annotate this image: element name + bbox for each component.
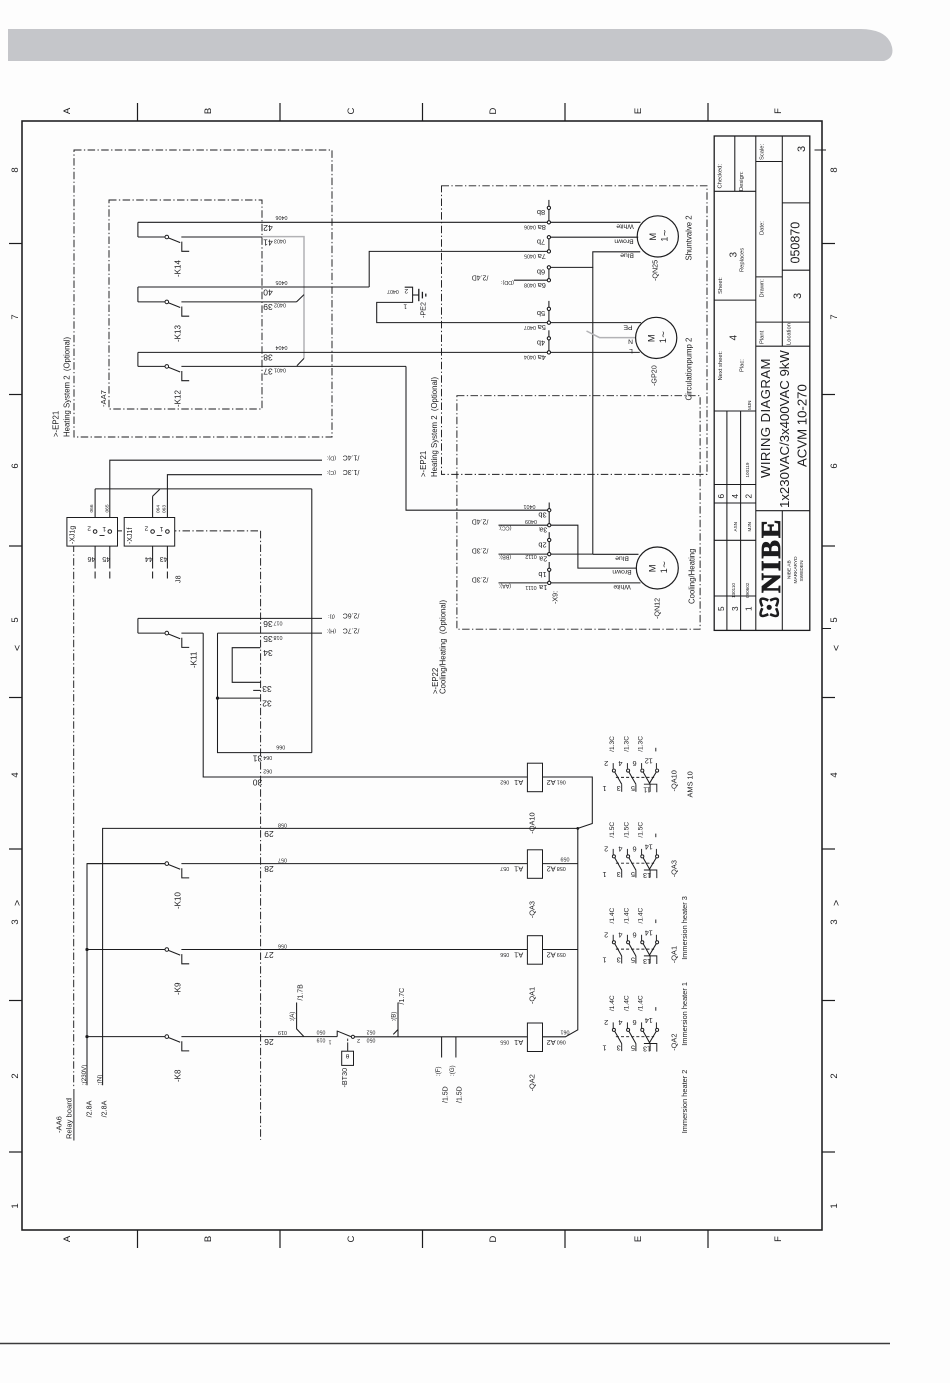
svg-text:0407: 0407 [524, 324, 536, 330]
relay contact -K10 [87, 863, 165, 865]
tick 33 [253, 689, 260, 691]
wire C XJ1g-2 chain [94, 489, 96, 532]
svg-text:3: 3 [617, 956, 621, 965]
svg-text:29: 29 [264, 829, 274, 839]
svg-text:2: 2 [745, 494, 754, 499]
svg-text:5: 5 [717, 606, 726, 611]
svg-text:(AA):: (AA): [499, 582, 511, 588]
svg-text:/1.4C: /1.4C [638, 908, 645, 924]
wire 066 bus down to 31 [311, 489, 313, 753]
svg-text:/1.7B: /1.7B [298, 984, 305, 1001]
svg-text:058: 058 [278, 821, 287, 827]
svg-text:4: 4 [618, 845, 622, 854]
svg-text:2: 2 [604, 759, 608, 768]
svg-text:Shuntvalve 2: Shuntvalve 2 [685, 215, 694, 260]
svg-text:NIBE: NIBE [755, 518, 786, 593]
svg-text:Sheet:: Sheet: [718, 277, 724, 294]
svg-text:14: 14 [645, 928, 653, 937]
svg-text:/1.4C: /1.4C [638, 995, 645, 1011]
wire 3a ref /2.4D (CC) [499, 524, 550, 526]
svg-text:L: L [629, 347, 633, 354]
ref stubs (F)(G) /1.5D [441, 1037, 443, 1058]
wire 1a ref /2.3D (AA) [499, 582, 550, 584]
svg-text:Immersion heater 1: Immersion heater 1 [680, 982, 689, 1046]
svg-text:065: 065 [104, 504, 110, 512]
svg-text:5a: 5a [537, 323, 546, 332]
svg-text:/1.5D: /1.5D [442, 1086, 449, 1103]
thermostat BT30 contact [336, 1031, 338, 1037]
svg-text:2: 2 [87, 525, 91, 532]
svg-text:0405: 0405 [276, 279, 288, 285]
title block grid [734, 136, 736, 191]
svg-text:3: 3 [796, 146, 808, 152]
svg-text:062: 062 [263, 767, 272, 773]
svg-text:<: < [831, 645, 843, 651]
wire 39 joins grey bus [297, 295, 305, 302]
svg-text:050870: 050870 [789, 222, 803, 264]
svg-text:33: 33 [262, 684, 272, 694]
svg-text:2b: 2b [538, 540, 546, 549]
svg-text:Design:: Design: [739, 171, 745, 191]
svg-text:/1.4C: /1.4C [609, 995, 616, 1011]
svg-text:4: 4 [731, 494, 740, 499]
column ticks bottom [137, 1230, 139, 1248]
diagonal join to XJ1f-2 [153, 489, 160, 496]
svg-text:Plant: Plant [760, 330, 766, 344]
svg-text:/1.5C: /1.5C [609, 822, 616, 838]
box -AA7 relay module [109, 200, 262, 409]
bus 230V [87, 864, 165, 1086]
svg-text:4a: 4a [537, 353, 546, 362]
svg-text:/1.3C: /1.3C [343, 468, 360, 475]
svg-text:Circulationpump 2: Circulationpump 2 [685, 338, 694, 401]
svg-text:12: 12 [645, 757, 653, 766]
svg-text:MJN: MJN [747, 401, 752, 410]
svg-text:40: 40 [263, 287, 273, 297]
A2 stubs QA3 QA1 [543, 863, 578, 865]
svg-text:Immersion heater 2: Immersion heater 2 [680, 1070, 689, 1134]
svg-text:(BB):: (BB): [499, 553, 511, 559]
svg-text:SWEDEN: SWEDEN [799, 560, 805, 582]
svg-text:2a: 2a [538, 554, 547, 563]
svg-text:1: 1 [328, 1038, 331, 1044]
svg-text:41: 41 [263, 237, 273, 247]
svg-text:MJN: MJN [747, 522, 752, 531]
svg-text:13: 13 [643, 1045, 651, 1054]
svg-text:A: A [62, 107, 73, 114]
svg-text:059: 059 [557, 951, 566, 957]
svg-text:A1: A1 [514, 951, 523, 960]
svg-text:34: 34 [263, 648, 273, 658]
svg-text:Location: Location [787, 323, 793, 345]
svg-text:<: < [12, 645, 24, 651]
svg-text:E: E [633, 108, 644, 114]
wire 3a to QN12 brown [549, 525, 637, 568]
svg-text:(C):: (C): [326, 469, 336, 475]
column ticks top [137, 103, 139, 121]
svg-text:6: 6 [633, 845, 637, 854]
relay contact -K9 [85, 948, 88, 951]
svg-text:35: 35 [263, 634, 273, 644]
svg-text:1a: 1a [538, 583, 547, 592]
svg-text:Drawn:: Drawn: [760, 279, 766, 298]
relay contact -K11 [137, 618, 139, 633]
aux contacts -QA10 [616, 776, 654, 778]
aux contacts -QA1 [616, 948, 654, 950]
svg-text:-K8: -K8 [174, 1069, 183, 1082]
contactor coil -QA2 [527, 1023, 542, 1052]
svg-text:D: D [488, 1235, 499, 1242]
svg-text:14: 14 [645, 842, 653, 851]
svg-text:39: 39 [263, 302, 273, 312]
bridge 34-33 [232, 648, 260, 683]
terminal pair 6b/6a [548, 267, 550, 280]
svg-text:Cooling/Heating: Cooling/Heating [688, 549, 697, 604]
terminal block X-PE2 box [377, 287, 549, 322]
QN25 white wire [549, 221, 641, 223]
svg-text:-QA3: -QA3 [528, 901, 537, 918]
aux contacts -QA3 [616, 862, 654, 864]
BT30 sensor box [347, 1039, 349, 1043]
motor QN12 [636, 547, 678, 589]
svg-text:/1.4C: /1.4C [623, 995, 630, 1011]
svg-text:D: D [488, 107, 499, 114]
svg-text:C: C [346, 1235, 357, 1242]
svg-text:100119: 100119 [745, 462, 750, 477]
svg-text:/2.3D: /2.3D [472, 547, 489, 554]
ref branch (B) /1.7C [397, 1029, 399, 1037]
svg-text:/2.8A: /2.8A [84, 1100, 93, 1117]
svg-text:5: 5 [631, 784, 635, 793]
svg-text:-QA1: -QA1 [528, 987, 537, 1004]
svg-text:-X9:: -X9: [551, 591, 560, 604]
svg-text:Blue: Blue [620, 251, 634, 258]
svg-text:5: 5 [10, 617, 21, 622]
svg-text:42: 42 [263, 223, 273, 233]
svg-text:0405: 0405 [524, 253, 536, 259]
svg-text:2: 2 [604, 845, 608, 854]
svg-text:6b: 6b [537, 268, 545, 277]
QN25 blue wire + N bus [549, 252, 640, 268]
svg-text:6a: 6a [537, 281, 546, 290]
svg-text:4: 4 [829, 772, 840, 777]
svg-text:PE: PE [623, 324, 633, 331]
svg-text:6: 6 [633, 759, 637, 768]
svg-text:0111: 0111 [525, 584, 536, 590]
GP20 PE wire [549, 322, 641, 324]
svg-text:/2.4D: /2.4D [472, 273, 489, 280]
wire 2a to QN12 blue via N bus [549, 553, 593, 555]
svg-text:M: M [647, 564, 658, 572]
svg-text:/2.7C: /2.7C [343, 626, 360, 633]
svg-text:/2.4D: /2.4D [472, 518, 489, 525]
svg-text:Scale:: Scale: [760, 143, 766, 160]
svg-text:0404: 0404 [276, 344, 288, 350]
svg-text:30: 30 [253, 778, 263, 788]
svg-text:0408: 0408 [524, 281, 536, 287]
svg-text:J8: J8 [174, 575, 183, 583]
N bus vertical [592, 267, 594, 554]
box AA6 relay board (open bottom) [74, 530, 261, 532]
svg-text:3a: 3a [538, 525, 547, 534]
svg-text:0401: 0401 [274, 366, 286, 372]
svg-text:2: 2 [829, 1073, 840, 1078]
svg-text:A2: A2 [547, 951, 556, 960]
relay K11 circuit: wire 36 ref /2.6C (I) [138, 617, 322, 619]
svg-text:11: 11 [643, 785, 651, 794]
svg-text:3b: 3b [538, 511, 546, 520]
svg-text:Relay board: Relay board [65, 1098, 74, 1139]
box EP21 right (Shuntvalve/Circulationpump) [442, 186, 708, 475]
box EP22 (Cooling/Heating Optional) [457, 396, 700, 630]
svg-text:8b: 8b [537, 208, 545, 217]
svg-text:/1.3C: /1.3C [623, 736, 630, 752]
bus B K11 out to 30 [203, 633, 527, 777]
svg-text:(DD):: (DD): [501, 279, 514, 285]
svg-text:B: B [203, 1236, 214, 1242]
contactor coil -QA1 [527, 936, 542, 965]
svg-text:A1: A1 [514, 1038, 523, 1047]
svg-text:060: 060 [557, 1038, 566, 1044]
svg-text:0402: 0402 [274, 301, 286, 307]
svg-text:1: 1 [403, 303, 407, 310]
svg-text:46: 46 [88, 555, 96, 564]
svg-text:A1: A1 [514, 778, 523, 787]
terminal pair 8b/8a [548, 200, 550, 208]
svg-text:/1.3C: /1.3C [609, 736, 616, 752]
svg-text:-PE2: -PE2 [419, 302, 428, 318]
svg-text:3: 3 [792, 293, 804, 299]
svg-text:6: 6 [717, 494, 726, 499]
row ticks left [9, 243, 22, 245]
svg-text:WIRING DIAGRAM: WIRING DIAGRAM [758, 358, 773, 478]
wire 0405 jog up to 7a [369, 251, 549, 287]
svg-text:/2.3D: /2.3D [472, 575, 489, 582]
box EP21 left (Heating System 2 Optional) [74, 150, 332, 437]
svg-text:1: 1 [829, 1203, 840, 1208]
svg-text:31: 31 [253, 753, 263, 763]
wire 29 / N feed [103, 828, 578, 1085]
svg-text:C: C [346, 107, 357, 114]
svg-text:37: 37 [263, 367, 273, 377]
svg-text:2: 2 [604, 1018, 608, 1027]
svg-text:5: 5 [829, 617, 840, 622]
svg-text:-QA10: -QA10 [670, 770, 679, 791]
svg-text:-BT30: -BT30 [340, 1068, 349, 1088]
svg-text:A2: A2 [547, 865, 556, 874]
svg-text:Checked:: Checked: [718, 164, 724, 189]
relay K12 circuit: wire 38/0404 to 4a [138, 351, 549, 353]
wire 32 [218, 697, 261, 699]
svg-text:2: 2 [357, 1037, 360, 1043]
svg-text:AMS 10: AMS 10 [686, 771, 695, 797]
svg-text:Blue: Blue [615, 554, 629, 561]
svg-text:B: B [203, 108, 214, 114]
svg-text:/1.4C: /1.4C [343, 453, 360, 460]
svg-text:Brown: Brown [614, 237, 633, 244]
GP20 L wire [549, 351, 640, 353]
svg-text:M: M [647, 233, 658, 241]
svg-text:6: 6 [829, 463, 840, 468]
svg-text:(CC):: (CC): [499, 524, 512, 530]
svg-text:Heating System 2 (Optional): Heating System 2 (Optional) [63, 336, 72, 437]
svg-text:4: 4 [618, 759, 622, 768]
svg-text:NIBE AB: NIBE AB [787, 560, 793, 579]
svg-text::(G): :(G) [449, 1065, 456, 1076]
svg-text:26: 26 [264, 1037, 274, 1047]
svg-text:/1.5C: /1.5C [638, 822, 645, 838]
svg-text:061: 061 [561, 1029, 570, 1035]
svg-text:1: 1 [602, 1043, 606, 1052]
svg-text:2: 2 [404, 287, 408, 294]
svg-text:/1.5C: /1.5C [623, 822, 630, 838]
svg-text:/1.3C: /1.3C [638, 736, 645, 752]
GP20 N wire grey [587, 331, 637, 338]
svg-text:-QA2: -QA2 [528, 1074, 537, 1091]
svg-text:32: 32 [262, 699, 272, 709]
svg-text:/2.6C: /2.6C [343, 612, 360, 619]
svg-text:F: F [773, 108, 784, 114]
PE2 earth symbol [413, 294, 419, 296]
wire 35 ref /2.7C (H) [218, 632, 323, 634]
svg-text:Next sheet:: Next sheet: [718, 351, 724, 381]
svg-text:7: 7 [829, 314, 840, 319]
svg-text:066: 066 [276, 744, 285, 750]
connector -XJ1f [124, 518, 175, 547]
svg-text:4: 4 [618, 1018, 622, 1027]
contactor coil -QA3 [527, 850, 542, 879]
svg-text:019: 019 [278, 1029, 287, 1035]
svg-text:1: 1 [602, 784, 606, 793]
svg-text:/1.7C: /1.7C [399, 988, 406, 1005]
svg-text:7: 7 [10, 314, 21, 319]
wire A XJ1g-1 to /1.4C (D) [110, 460, 322, 531]
svg-text:1: 1 [745, 606, 754, 611]
svg-text::(230V): :(230V) [81, 1065, 88, 1085]
svg-text::(A): :(A) [289, 1012, 296, 1022]
row ticks right [822, 243, 835, 245]
svg-text:ASN: ASN [733, 522, 738, 531]
svg-text:6: 6 [10, 463, 21, 468]
svg-text:Immersion heater 3: Immersion heater 3 [680, 896, 689, 960]
svg-text:/2.8A: /2.8A [100, 1100, 109, 1117]
svg-text:018: 018 [274, 634, 283, 640]
terminals 3b/3a [548, 503, 550, 511]
svg-text:>-EP21: >-EP21 [52, 411, 61, 437]
drawing frame [22, 121, 822, 1230]
connector -XJ1g [67, 518, 118, 547]
svg-text:ACVM 10-270: ACVM 10-270 [795, 384, 810, 467]
relay K14 circuit: wire 42/0406 to 8a [138, 221, 549, 223]
bus A 35 down to 31 [218, 633, 312, 753]
svg-text:Cooling/Heating (Optional): Cooling/Heating (Optional) [439, 600, 448, 694]
aux contacts -QA2 [616, 1036, 654, 1038]
svg-text:7b: 7b [537, 237, 545, 246]
svg-text:43: 43 [160, 555, 168, 564]
svg-text:27: 27 [264, 950, 274, 960]
svg-text::(N): :(N) [97, 1075, 104, 1085]
svg-text:050: 050 [317, 1029, 326, 1035]
grey header bar [8, 29, 892, 61]
terminal circles restamp X9 [548, 509, 551, 512]
svg-text:>: > [831, 900, 843, 906]
svg-text::(F): :(F) [435, 1066, 442, 1076]
motor GP20 [636, 317, 677, 358]
svg-text:056: 056 [278, 942, 287, 948]
svg-text:-GP20: -GP20 [650, 365, 659, 386]
svg-text:2: 2 [604, 931, 608, 940]
svg-text:-QN25: -QN25 [651, 260, 660, 281]
svg-text:36: 36 [263, 619, 273, 629]
svg-text:058: 058 [557, 865, 566, 871]
svg-text:MARKARYD: MARKARYD [793, 556, 799, 584]
relay contact -K13 [137, 287, 139, 302]
svg-text:4b: 4b [537, 339, 545, 348]
svg-text:3: 3 [829, 919, 840, 924]
svg-text:-K13: -K13 [174, 325, 183, 342]
svg-text:7a: 7a [537, 252, 546, 261]
svg-text:055: 055 [500, 1038, 509, 1044]
svg-text:/1.5D: /1.5D [457, 1086, 464, 1103]
NIBE logo star [761, 599, 778, 616]
svg-text:8: 8 [829, 167, 840, 172]
terminal pair 7b/7a [548, 237, 550, 251]
svg-text:061: 061 [557, 779, 566, 785]
svg-text:3: 3 [731, 606, 740, 611]
svg-text:090602: 090602 [745, 582, 750, 598]
svg-text:6: 6 [633, 1018, 637, 1027]
svg-text:057: 057 [278, 856, 287, 862]
svg-text:5: 5 [631, 1043, 635, 1052]
ref branch (A) /1.7B [297, 1003, 304, 1037]
svg-text:057: 057 [500, 865, 509, 871]
svg-text:-XJ1f: -XJ1f [127, 528, 134, 544]
J8 pins below connectors [94, 546, 96, 568]
svg-text:3: 3 [617, 1043, 621, 1052]
svg-text:1∼: 1∼ [660, 229, 670, 242]
svg-text:-QN12: -QN12 [653, 598, 662, 619]
svg-text:0403: 0403 [274, 238, 286, 244]
svg-text:13: 13 [643, 871, 651, 880]
svg-text:Heating System 2 (Optional): Heating System 2 (Optional) [430, 376, 439, 477]
svg-text:1: 1 [159, 525, 163, 532]
svg-text:-AA7: -AA7 [99, 390, 108, 407]
svg-text:14: 14 [645, 1016, 653, 1025]
junction dot 32 [216, 697, 219, 700]
terminals 1b/1a [548, 562, 550, 570]
svg-text:3: 3 [617, 784, 621, 793]
svg-text:-K11: -K11 [190, 651, 199, 668]
relay K13 circuit: wire 40/0405 [138, 286, 369, 288]
terminals 2b/2a [548, 532, 550, 540]
svg-text:-QA10: -QA10 [528, 812, 537, 833]
svg-text:130110: 130110 [731, 583, 736, 598]
relay contact -K8 [85, 1035, 88, 1038]
svg-text:059: 059 [561, 855, 570, 861]
footer rule [0, 1343, 890, 1345]
svg-text:-K10: -K10 [174, 892, 183, 909]
terminal pair 4b/4a [548, 330, 550, 338]
svg-text:Brown: Brown [612, 568, 631, 575]
terminal circles restamp [547, 206, 550, 209]
svg-text:064: 064 [155, 505, 161, 513]
svg-text:A2: A2 [547, 1038, 556, 1047]
svg-text:1x230VAC/3x400VAC 9kW: 1x230VAC/3x400VAC 9kW [777, 350, 792, 508]
svg-text:28: 28 [264, 864, 274, 874]
svg-text:052: 052 [367, 1029, 376, 1035]
svg-text:1∼: 1∼ [658, 331, 668, 344]
svg-text:017: 017 [274, 619, 283, 625]
